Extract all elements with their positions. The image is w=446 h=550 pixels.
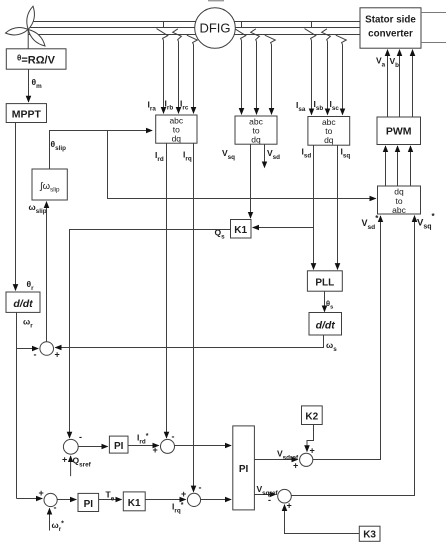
svg-text:d/dt: d/dt [316,320,336,332]
wire I_rd summer to main PI [175,445,232,447]
block abc-to-dq rotor [156,115,197,144]
wire V_sdref to summer [254,459,297,461]
svg-text:MPPT: MPPT [12,108,42,120]
wire omega_r* input [49,508,51,530]
wire V_sq down to K1 [250,144,252,218]
wire bus line 3 [28,34,360,36]
svg-text:+: + [62,455,67,465]
circle DFIG [195,8,236,49]
wire converter right top [421,12,446,14]
node V_sq summing junction [268,489,292,510]
wire K3 to V_sq summer [285,505,360,534]
svg-text:PI: PI [84,499,94,510]
svg-text:+: + [310,446,315,456]
wire I_rd down to current summer [166,143,168,438]
svg-text:-: - [54,503,57,513]
block PWM [377,117,421,145]
wire T_e to K1 [99,499,122,501]
wire K2 to V_sd summer [307,425,314,452]
block K3 [359,526,380,541]
svg-text:DFIG: DFIG [199,21,230,36]
rotor current tap b [173,29,182,113]
svg-text:-: - [172,432,175,442]
node I_rq summing junction [181,483,202,507]
block K1 reactive power [231,220,252,239]
svg-text:Stator side: Stator side [365,15,416,26]
block K1 torque [123,492,145,511]
node V_sd summing junction [293,446,315,471]
block integrator [32,169,67,200]
wire I_sd into K1 [253,227,314,229]
svg-text:+: + [55,350,60,360]
svg-text:+: + [293,461,298,471]
node slip summing junction [34,342,60,360]
block PI reactive power [109,436,128,453]
wire Q summer to PI [78,446,107,448]
wire dq-abc to PWM b [397,146,399,186]
wire bus line 1 [28,21,360,23]
svg-text:K1: K1 [128,498,141,509]
wire Q_sref input [70,456,72,476]
block main PI current controller [233,426,255,510]
block abc-to-dq stator current [308,117,350,146]
wire I_rd* to current summer [128,445,159,447]
wire dq-abc to PWM c [410,146,412,186]
svg-text:converter: converter [368,29,413,40]
svg-text:-: - [79,432,82,442]
stator voltage tap a [235,22,246,115]
block d/dt (rotor) [6,292,40,312]
stator current tap b [322,29,331,115]
svg-text:+: + [39,488,44,498]
block lambda=R.Omega/V [6,49,66,69]
wire PWM to converter phase a [387,50,389,117]
svg-text:dq: dq [324,135,334,145]
svg-text:PI: PI [239,464,249,475]
svg-text:abc: abc [392,205,406,215]
wire omega_r into speed summer [17,498,43,500]
stator current tap c [336,35,347,114]
wire I_rq* to current summer [145,499,185,501]
svg-text:d/dt: d/dt [13,298,33,310]
wire theta_slip to abc-dq rotor box [50,131,153,170]
wire PWM to converter phase b [399,50,401,117]
block abc-to-dq voltage [235,116,277,145]
block PLL [307,271,342,291]
svg-text:PWM: PWM [386,126,412,138]
wire theta_slip branch to dq-abc box [108,131,376,199]
svg-text:K1: K1 [234,225,247,236]
svg-text:-: - [199,483,202,493]
wire omega_r into slip summer [17,348,39,350]
svg-text:dq: dq [394,187,404,197]
rotor current tap a [157,22,168,114]
wire dq-abc to PWM a [385,146,387,186]
wire V_sd stub arrow [264,144,266,167]
wire bus line 2 [28,27,360,29]
wire I_sq down to PLL [337,145,339,269]
svg-text:K3: K3 [363,530,376,541]
wire V_sd* feedback to dq-abc [313,216,381,460]
wire theta_m arrow to MPPT [28,69,30,102]
wire I_sd down to PLL [313,145,315,269]
node speed summing junction [39,488,58,513]
block d/dt (stator) [309,313,342,336]
svg-text:PI: PI [114,441,124,452]
node I_rd summing junction [153,432,175,456]
wire V_sq* feedback to dq-abc [291,216,414,496]
svg-text:-: - [34,350,37,360]
block PI speed [78,493,99,511]
wire I_rq summer to main PI [201,499,231,501]
wire converter right bottom [421,42,446,44]
block MPPT [6,104,46,123]
wire V_sqref to summer [254,494,275,496]
svg-text:K2: K2 [305,412,318,423]
rotor current tap c [187,35,198,113]
wire omega_slip up to integrator [46,202,48,342]
svg-text:PLL: PLL [315,278,334,289]
wire speed summer to PI [57,499,76,501]
wire I_rq down to current summer [193,143,195,492]
block K2 [302,406,323,425]
block stator side converter [360,8,421,48]
stator voltage tap b [251,29,260,114]
svg-text:+: + [181,489,186,499]
top border artifact line [208,0,224,2]
wire MPPT output down to d/dt [15,123,17,291]
wire omega_r down [16,313,18,499]
svg-text:dq: dq [172,134,182,144]
wire Q_s from K1 to Q summer [70,230,231,438]
stator current tap a [305,22,316,115]
stator voltage tap c [265,35,276,114]
wind turbine [6,6,46,49]
svg-text:+: + [287,501,292,511]
svg-text:dq: dq [251,135,261,145]
svg-text:-: - [268,495,271,505]
svg-text:+: + [153,445,158,455]
node Q summing junction [62,432,82,465]
wire omega_s to slip summer [55,335,323,348]
wire theta_s PLL to d/dt [324,292,326,312]
wire PWM to converter phase c [412,50,414,117]
svg-text:θ=RΩ/V: θ=RΩ/V [17,54,56,67]
block dq-to-abc [378,186,421,215]
